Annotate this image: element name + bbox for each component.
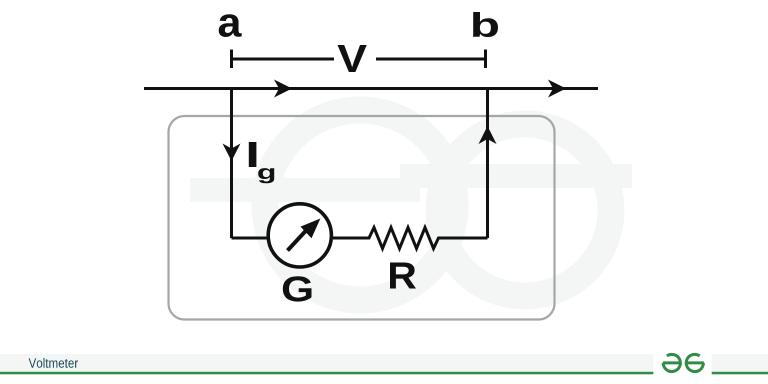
wire main line xyxy=(144,87,598,90)
footer green rule right xyxy=(712,372,768,375)
wire to galvanometer xyxy=(232,237,268,240)
current arrow right xyxy=(548,80,566,98)
label G xyxy=(283,276,312,301)
galvanometer G xyxy=(268,204,331,267)
wire node b vertical xyxy=(486,89,489,239)
label R xyxy=(390,263,416,289)
dimension line left of V xyxy=(233,58,334,61)
footer band left xyxy=(0,354,653,372)
tick node b xyxy=(484,50,487,69)
arrow up into node b xyxy=(479,126,497,144)
label g subscript of Ig xyxy=(258,168,274,183)
footer green rule left xyxy=(0,372,653,375)
node b label xyxy=(473,12,498,37)
dimension line right of V xyxy=(376,58,486,61)
arrow Ig down xyxy=(223,144,241,162)
watermark logo xyxy=(190,110,632,300)
current arrow left xyxy=(274,80,292,98)
label V xyxy=(338,45,367,72)
tick node a xyxy=(230,50,233,69)
galvanometer needle xyxy=(288,219,321,251)
voltmeter enclosure box xyxy=(169,116,555,320)
wire node a vertical xyxy=(230,89,233,239)
footer band right xyxy=(712,354,768,372)
resistor R xyxy=(333,228,488,249)
label I of Ig xyxy=(249,142,257,167)
footer caption Voltmeter xyxy=(29,358,78,368)
footer logo xyxy=(663,354,704,371)
node a label xyxy=(219,14,242,37)
